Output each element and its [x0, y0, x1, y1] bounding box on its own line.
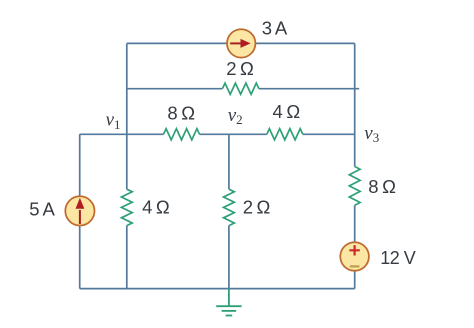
svg-text:v1: v1: [106, 109, 121, 131]
wire top (3A branch): [127, 42, 355, 44]
svg-text:3 A: 3 A: [262, 18, 288, 39]
svg-text:4 Ω: 4 Ω: [273, 101, 301, 122]
resistor 2ohm (top branch): [222, 83, 259, 94]
svg-text:5 A: 5 A: [29, 199, 55, 220]
svg-text:4 Ω: 4 Ω: [142, 196, 170, 217]
svg-text:v2: v2: [228, 105, 243, 127]
svg-text:8 Ω: 8 Ω: [368, 176, 396, 197]
svg-text:2 Ω: 2 Ω: [226, 58, 254, 79]
current source 3A: [227, 29, 255, 57]
wire bottom: [80, 288, 355, 290]
wire right vertical (v3 column): [354, 43, 356, 288]
resistor 4ohm (v1 to ground): [121, 189, 132, 225]
svg-text:v3: v3: [364, 123, 379, 145]
wire v1 column vertical: [126, 43, 128, 288]
wire main node line v1-v2-v3: [80, 133, 355, 135]
ground: [216, 289, 241, 316]
resistor 2ohm (v2 to ground): [224, 189, 235, 225]
wire v2 column vertical: [228, 134, 230, 288]
svg-text:12 V: 12 V: [380, 248, 416, 268]
svg-text:2 Ω: 2 Ω: [243, 196, 271, 217]
voltage source 12V: [340, 242, 369, 271]
current source 5A: [65, 196, 94, 225]
resistor 8ohm (between v1 and v2): [164, 129, 200, 140]
resistor 8ohm (v3 column): [349, 167, 360, 206]
wire 2-ohm branch: [127, 88, 359, 90]
wire left vertical (5A branch): [79, 134, 81, 288]
resistor 4ohm (between v2 and v3): [267, 129, 303, 140]
svg-text:8 Ω: 8 Ω: [167, 102, 195, 123]
